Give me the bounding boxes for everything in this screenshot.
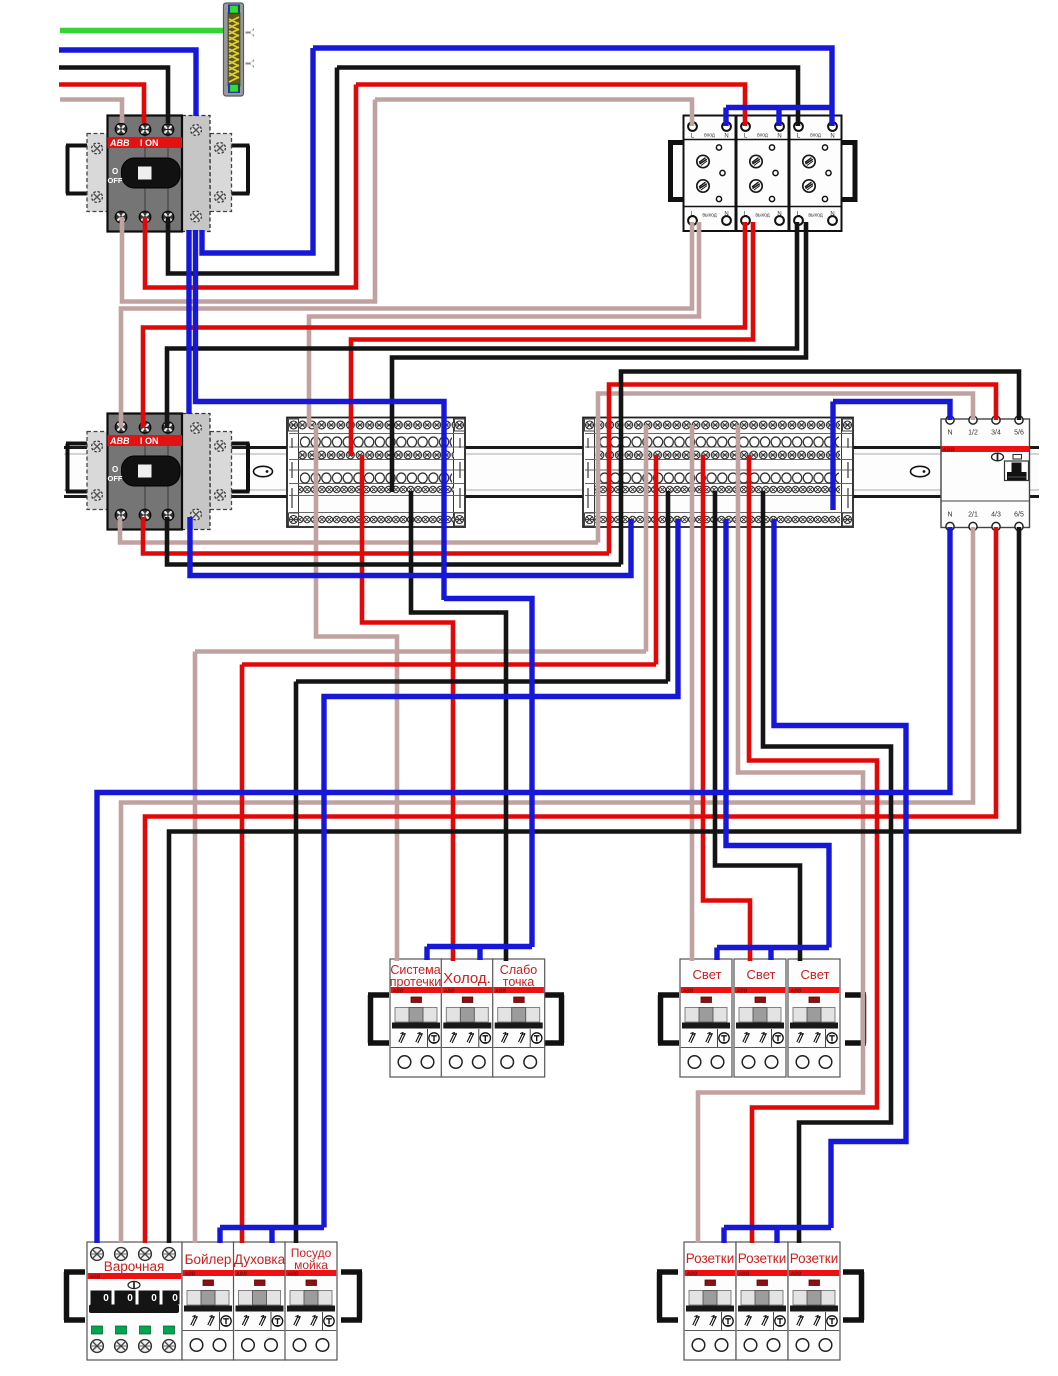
svg-text:0: 0 — [172, 1293, 178, 1304]
svg-text:Розетки: Розетки — [790, 1251, 839, 1266]
svg-text:мойка: мойка — [294, 1258, 328, 1272]
svg-text:5/6: 5/6 — [1014, 430, 1024, 437]
svg-text:Свет: Свет — [747, 967, 776, 982]
svg-text:OFF: OFF — [108, 176, 123, 185]
svg-text:O: O — [112, 167, 118, 176]
svg-text:N: N — [724, 134, 728, 140]
svg-text:N: N — [947, 512, 952, 519]
svg-text:I ON: I ON — [140, 138, 159, 148]
svg-text:Розетки: Розетки — [686, 1251, 735, 1266]
svg-text:ABB: ABB — [942, 448, 955, 454]
svg-text:Духовка: Духовка — [234, 1252, 286, 1267]
svg-text:1/2: 1/2 — [968, 430, 978, 437]
svg-text:N: N — [947, 430, 952, 437]
svg-text:3/4: 3/4 — [991, 430, 1001, 437]
svg-text:Холод.: Холод. — [443, 970, 491, 987]
svg-text:Бойлер: Бойлер — [185, 1252, 232, 1267]
svg-text:ABB: ABB — [89, 1275, 101, 1281]
svg-text:выход: выход — [702, 213, 716, 219]
svg-text:0: 0 — [127, 1293, 133, 1304]
svg-text:4/3: 4/3 — [991, 512, 1001, 519]
svg-text:2/1: 2/1 — [968, 512, 978, 519]
svg-text:Розетки: Розетки — [738, 1251, 787, 1266]
svg-text:0: 0 — [103, 1293, 109, 1304]
svg-text:0: 0 — [151, 1293, 157, 1304]
svg-text:точка: точка — [503, 975, 535, 989]
svg-text:6/5: 6/5 — [1014, 512, 1024, 519]
svg-text:ABB: ABB — [109, 138, 130, 148]
svg-text:Свет: Свет — [693, 967, 722, 982]
svg-text:Свет: Свет — [801, 967, 830, 982]
svg-text:протечки: протечки — [390, 975, 442, 989]
svg-text:Варочная: Варочная — [104, 1259, 165, 1274]
svg-text:вход: вход — [704, 133, 715, 139]
